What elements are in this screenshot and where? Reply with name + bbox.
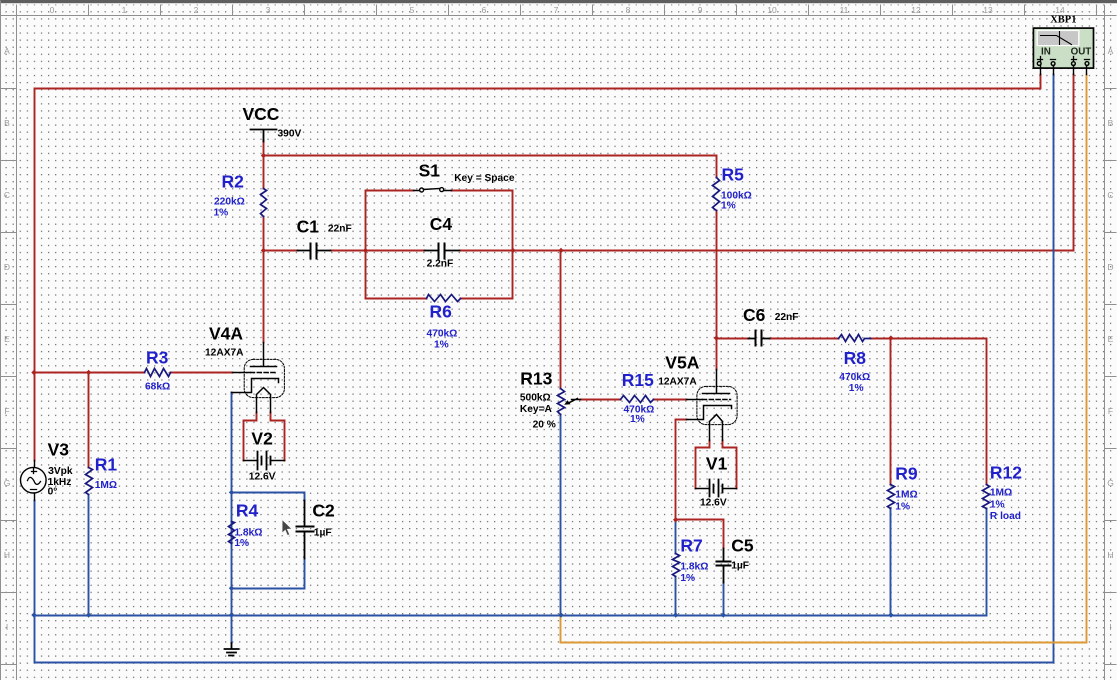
junction C4 box right node <box>510 248 515 253</box>
svg-text:1%: 1% <box>434 340 449 351</box>
svg-text:B: B <box>4 118 10 128</box>
svg-text:R2: R2 <box>222 172 245 192</box>
svg-text:C6: C6 <box>743 305 766 325</box>
instrument XBP1 labels <box>1041 15 1091 58</box>
resistor R8 labels <box>839 348 870 394</box>
capacitor C4 labels <box>427 214 454 270</box>
svg-text:R6: R6 <box>430 302 453 322</box>
svg-text:1.8kΩ: 1.8kΩ <box>234 528 262 539</box>
wire: V1 heater loop <box>696 441 737 489</box>
capacitor C6 <box>749 331 770 346</box>
svg-text:1%: 1% <box>721 201 736 212</box>
svg-text:7: 7 <box>554 5 559 15</box>
instrument XBP1 bode plotter <box>1033 28 1093 74</box>
resistor R4 <box>229 522 235 544</box>
wire: ground net V3- along bottom to XBP1 IN- <box>35 75 1054 663</box>
wire: V2 heater loop <box>244 413 285 461</box>
svg-text:1: 1 <box>122 5 127 15</box>
svg-text:1%: 1% <box>234 538 249 549</box>
svg-text:R4: R4 <box>236 501 259 521</box>
svg-text:3: 3 <box>266 5 271 15</box>
capacitor C1 <box>298 244 331 259</box>
svg-text:V2: V2 <box>251 429 273 449</box>
svg-text:1µF: 1µF <box>314 528 332 539</box>
svg-text:VCC: VCC <box>243 104 280 124</box>
svg-text:5: 5 <box>410 5 415 15</box>
junction ground-bus at V3- <box>31 612 36 617</box>
wire: C5 bottom <box>723 583 725 616</box>
svg-text:22nF: 22nF <box>328 224 352 235</box>
svg-text:G: G <box>1107 478 1114 488</box>
wire: ground bus <box>35 509 987 616</box>
svg-text:R7: R7 <box>680 536 702 556</box>
svg-text:12.6V: 12.6V <box>249 472 276 483</box>
wire: grid feed V3/R3 to V4A grid <box>35 372 233 374</box>
triode V4A electrodes <box>232 343 279 413</box>
svg-text:G: G <box>4 478 11 488</box>
wire: R7 leads <box>675 520 677 616</box>
resistor R7 <box>673 554 680 577</box>
svg-text:11: 11 <box>840 5 849 15</box>
junction R2 bottom / C1 node <box>261 248 266 253</box>
battery V2 labels <box>249 429 276 483</box>
wire: IN+ red loop from XBP1 down, across top and down left side to V3 <box>35 75 1041 461</box>
svg-text:C: C <box>4 190 10 200</box>
svg-text:R13: R13 <box>520 369 552 389</box>
battery V1 <box>696 480 737 497</box>
svg-text:V3: V3 <box>48 440 70 460</box>
resistor R15 <box>621 396 654 403</box>
svg-text:V5A: V5A <box>665 353 699 373</box>
wire: node to R13 top <box>560 251 562 389</box>
junction V4A cathode / R4-C2 top <box>229 490 234 495</box>
power symbol VCC 390V <box>251 130 277 142</box>
svg-text:12.6V: 12.6V <box>700 498 727 509</box>
svg-text:Key = Space: Key = Space <box>454 173 515 184</box>
svg-text:I: I <box>6 622 8 632</box>
resistor R3 <box>145 369 171 377</box>
svg-text:H: H <box>4 550 10 560</box>
resistor R15 labels <box>622 370 655 425</box>
battery V1 labels <box>700 454 728 509</box>
svg-text:OUT: OUT <box>1071 47 1092 58</box>
switch S1 labels <box>419 161 515 185</box>
svg-text:R8: R8 <box>844 348 867 368</box>
wire: S1/C4/R6 parallel box <box>366 191 513 299</box>
svg-text:F: F <box>4 406 9 416</box>
resistor R8 <box>839 335 871 342</box>
junction VCC rail at R2 top <box>261 153 266 158</box>
capacitor C5 <box>717 549 731 583</box>
capacitor C4 <box>425 244 460 259</box>
svg-text:1%: 1% <box>895 502 910 513</box>
resistor R6 labels <box>427 302 458 351</box>
svg-text:A: A <box>4 46 10 56</box>
svg-text:R9: R9 <box>895 464 918 484</box>
svg-text:C1: C1 <box>297 217 320 237</box>
junction ground-bus at R13 / OUT- tap <box>558 612 563 617</box>
wire: R2 bottom to V4A anode <box>263 217 265 343</box>
svg-text:10: 10 <box>767 5 777 15</box>
svg-text:Key=A: Key=A <box>520 404 553 415</box>
svg-text:V4A: V4A <box>209 324 243 344</box>
svg-text:14: 14 <box>1055 5 1065 15</box>
triode V5A labels <box>658 353 700 388</box>
svg-text:500kΩ: 500kΩ <box>520 393 551 404</box>
svg-text:1MΩ: 1MΩ <box>895 490 917 501</box>
capacitor C1 labels <box>297 217 352 237</box>
svg-text:1%: 1% <box>849 383 864 394</box>
svg-text:F: F <box>1108 406 1113 416</box>
resistor R9 <box>888 485 895 509</box>
junction R4-C2 bottom <box>229 586 234 591</box>
svg-text:470kΩ: 470kΩ <box>839 372 870 383</box>
svg-text:R12: R12 <box>990 463 1022 483</box>
resistor R2 labels <box>214 172 245 219</box>
wire: R5 bottom to C6/V5A anode node <box>716 211 718 339</box>
svg-text:0°: 0° <box>48 487 58 498</box>
junction C4 box left node <box>363 248 368 253</box>
resistor R1 <box>86 468 93 495</box>
svg-text:4: 4 <box>338 5 343 15</box>
source V3 labels <box>48 440 73 498</box>
svg-text:C: C <box>1107 190 1113 200</box>
svg-text:R load: R load <box>990 511 1021 522</box>
junction R8/R9 node <box>888 335 893 340</box>
wire: R9 bottom <box>890 509 892 616</box>
mouse cursor <box>282 519 293 536</box>
potentiometer R13 <box>558 389 565 415</box>
svg-text:1MΩ: 1MΩ <box>990 488 1012 499</box>
wire: mid node to OUT+ <box>513 75 1074 251</box>
svg-text:R1: R1 <box>95 455 118 475</box>
svg-text:A: A <box>1108 46 1114 56</box>
svg-text:20 %: 20 % <box>533 420 556 431</box>
AC source V3 <box>21 461 47 501</box>
svg-text:1MΩ: 1MΩ <box>95 480 117 491</box>
triode V5A electrodes <box>687 370 732 441</box>
switch S1 <box>414 188 452 192</box>
svg-text:6: 6 <box>482 5 487 15</box>
wire: R1 bottom <box>88 495 90 616</box>
junction node to R13 top <box>558 248 563 253</box>
junction V5A cathode / R7 / C5 node <box>673 517 678 522</box>
svg-text:C5: C5 <box>731 536 754 556</box>
resistor R1 labels <box>95 455 118 492</box>
resistor R7 labels <box>680 536 708 585</box>
wire: R13 wiper to R15 to V5A grid <box>581 399 687 401</box>
wire: C1 horizontal <box>264 250 366 252</box>
capacitor C2 labels <box>312 501 335 539</box>
resistor R5 labels <box>721 165 752 212</box>
svg-text:R3: R3 <box>146 348 169 368</box>
wire: C6 row to R8 and down to R9 R12 <box>717 339 987 485</box>
svg-text:D: D <box>1107 262 1113 272</box>
resistor R12 (R load) <box>983 485 990 509</box>
svg-text:12AX7A: 12AX7A <box>658 377 697 388</box>
svg-text:D: D <box>4 262 10 272</box>
capacitor C6 labels <box>743 305 798 325</box>
wire: VCC rail to R5 <box>264 141 717 189</box>
resistor R12 labels <box>990 463 1022 523</box>
svg-text:B: B <box>1108 118 1114 128</box>
potentiometer R13 labels <box>520 369 556 431</box>
svg-text:1%: 1% <box>214 208 229 219</box>
svg-text:12: 12 <box>911 5 921 15</box>
svg-text:XBP1: XBP1 <box>1050 15 1076 26</box>
svg-text:220kΩ: 220kΩ <box>214 197 245 208</box>
svg-text:1%: 1% <box>630 414 645 425</box>
junction ground-bus at R7 <box>673 612 678 617</box>
junction ground-bus at R1 <box>86 612 91 617</box>
capacitor C2 <box>297 501 314 559</box>
svg-text:390V: 390V <box>278 129 302 140</box>
triode V5A envelope <box>697 386 737 424</box>
svg-text:1%: 1% <box>680 573 695 584</box>
junction R1 top node <box>86 370 91 375</box>
junction ground-bus at R9 <box>888 612 893 617</box>
wire: R1 top lead <box>88 373 90 468</box>
resistor R2 <box>261 189 267 217</box>
resistor R5 <box>713 178 720 211</box>
wire: R4/C2 box <box>232 493 305 589</box>
svg-text:22nF: 22nF <box>775 312 799 323</box>
svg-text:1µF: 1µF <box>731 561 749 572</box>
triode V4A envelope <box>244 359 284 397</box>
wire: V4A cathode down through R4 to bus <box>231 393 233 644</box>
svg-text:470kΩ: 470kΩ <box>427 329 458 340</box>
svg-text:13: 13 <box>983 5 993 15</box>
wire: OUT- orange return <box>561 75 1087 643</box>
svg-text:R5: R5 <box>722 165 745 185</box>
svg-text:9: 9 <box>698 5 703 15</box>
resistor R6 <box>427 295 461 302</box>
resistor R4 labels <box>234 501 262 550</box>
node VCC label <box>243 104 302 140</box>
svg-text:C4: C4 <box>430 214 453 234</box>
svg-text:12AX7A: 12AX7A <box>205 348 244 359</box>
ground <box>225 643 239 656</box>
resistor R9 labels <box>895 464 918 513</box>
svg-text:3Vpk: 3Vpk <box>48 466 73 477</box>
svg-text:68kΩ: 68kΩ <box>145 382 170 393</box>
svg-text:I: I <box>1109 622 1111 632</box>
svg-text:H: H <box>1107 550 1113 560</box>
junction R5/C6/V5A anode node <box>714 335 719 340</box>
svg-text:R15: R15 <box>622 370 654 390</box>
resistor R3 labels <box>145 348 170 393</box>
svg-text:2.2nF: 2.2nF <box>427 259 454 270</box>
wire: V5A cathode to R7/C5 <box>676 420 724 549</box>
capacitor C5 labels <box>731 536 754 572</box>
battery V2 <box>244 452 285 470</box>
junction V3+/grid wire node <box>31 370 36 375</box>
junction ground-bus at R4 leg <box>229 612 234 617</box>
svg-text:C2: C2 <box>312 501 335 521</box>
svg-text:V1: V1 <box>706 454 728 474</box>
svg-text:2: 2 <box>194 5 199 15</box>
svg-text:8: 8 <box>626 5 631 15</box>
svg-text:1%: 1% <box>990 500 1005 511</box>
svg-text:1.8kΩ: 1.8kΩ <box>680 562 708 573</box>
svg-text:S1: S1 <box>419 161 441 181</box>
wire: V5A anode drop <box>716 339 718 370</box>
wire: R13 bottom <box>560 415 562 616</box>
triode V4A labels <box>205 324 244 359</box>
svg-text:0: 0 <box>50 5 55 15</box>
svg-text:E: E <box>1108 334 1114 344</box>
junction ground-bus at C5 <box>721 612 726 617</box>
potentiometer R13 wiper arrow <box>564 399 580 405</box>
svg-text:E: E <box>4 334 10 344</box>
svg-text:IN: IN <box>1041 47 1051 58</box>
